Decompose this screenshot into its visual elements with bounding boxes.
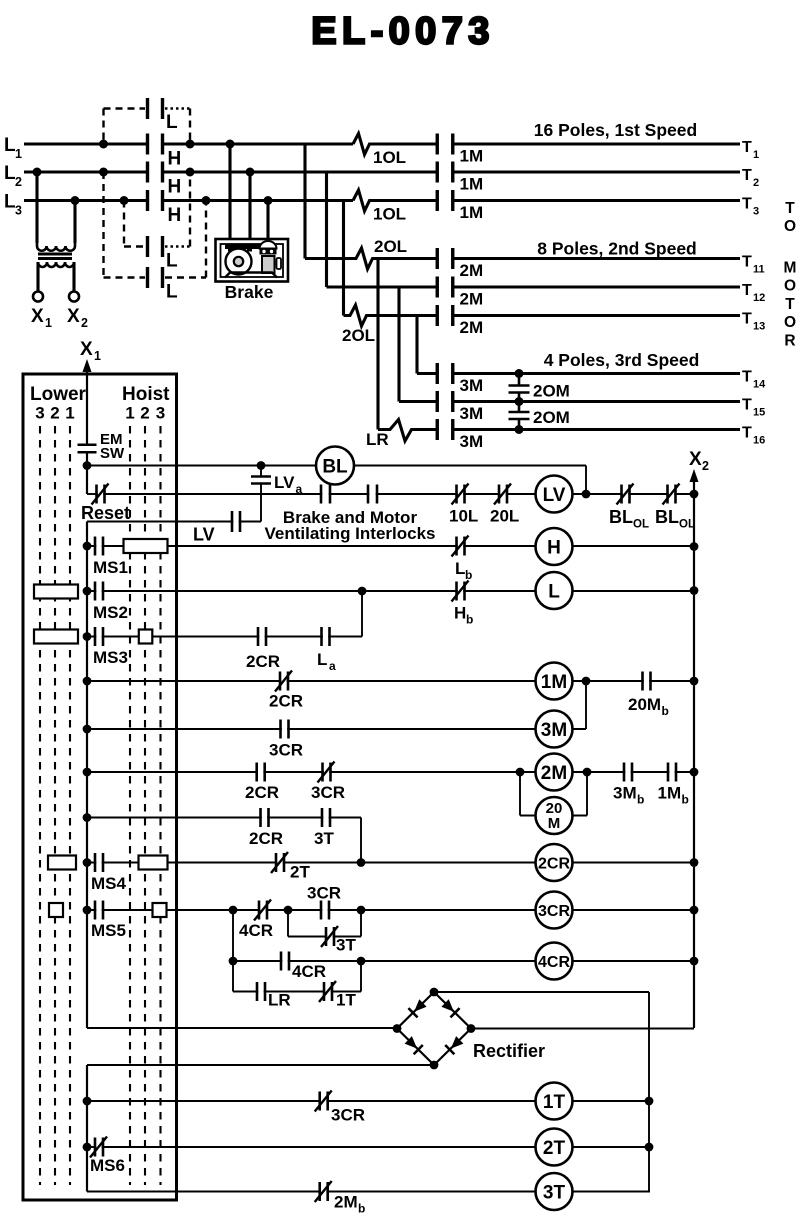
label T14 (742, 369, 766, 391)
label 2M row y=287 (460, 290, 484, 309)
wire 2OM upper (518, 374, 521, 402)
label 3Mb (613, 784, 644, 807)
svg-text:MS2: MS2 (93, 603, 128, 622)
svg-text:2M: 2M (460, 318, 484, 337)
svg-text:X: X (67, 306, 80, 327)
svg-text:LR: LR (268, 991, 291, 1010)
svg-text:2: 2 (15, 175, 22, 189)
svg-text:2CR: 2CR (245, 783, 279, 802)
label LR (268, 991, 291, 1010)
junction dot 2M b (583, 768, 592, 777)
contact L mid (148, 236, 163, 257)
svg-text:T: T (742, 254, 752, 271)
wire 3T branch (288, 910, 361, 937)
svg-text:O: O (784, 218, 796, 235)
wire row T15 (399, 400, 740, 403)
svg-text:20L: 20L (490, 507, 519, 526)
contact 2CR MS3 (258, 627, 266, 646)
contact MS1 (95, 537, 103, 556)
contact 4CR coil rung (281, 952, 289, 971)
junction dot 3M left (83, 725, 92, 734)
label 2CR 2M (245, 783, 279, 802)
label 2CR 1M (269, 692, 303, 711)
junction dot rail 2CR (690, 858, 699, 867)
contact Lb (452, 536, 469, 557)
capacitor 2OM upper (509, 386, 530, 393)
title EL-0073 (311, 11, 495, 53)
coil 2T (536, 1129, 573, 1166)
label T16 (742, 425, 765, 447)
svg-text:2M: 2M (460, 290, 484, 309)
label 1OL row1 (373, 148, 406, 167)
svg-text:3M: 3M (460, 432, 484, 451)
svg-text:LV: LV (274, 473, 295, 492)
wire X2 rail (693, 480, 695, 1028)
contact 2CR 1M (275, 671, 292, 692)
label TO MOTOR (784, 200, 797, 350)
svg-text:LV: LV (193, 525, 215, 545)
label LR row9 (366, 430, 389, 449)
label BLOL a (609, 507, 649, 531)
junction dot MS1 (83, 542, 92, 551)
svg-text:1: 1 (15, 147, 22, 161)
coil LV (536, 476, 573, 513)
wire X1 feeder to Reset (87, 453, 97, 495)
svg-text:L: L (166, 251, 178, 272)
label L bottom (166, 282, 178, 303)
label 10L (449, 507, 478, 526)
label X1 terminal (31, 306, 52, 330)
svg-text:3CR: 3CR (269, 741, 303, 760)
contact MS2 (95, 582, 103, 601)
terminal X2sec (69, 292, 79, 302)
svg-text:1T: 1T (336, 991, 356, 1010)
svg-text:T: T (742, 369, 752, 386)
coil 4CR (536, 943, 573, 980)
contact BLOL a (617, 484, 634, 505)
label 2CR MS3 (246, 652, 280, 671)
svg-text:b: b (662, 704, 669, 718)
junction dot rail 2M (690, 768, 699, 777)
junction dot 1M left (83, 677, 92, 686)
svg-text:O: O (784, 278, 796, 295)
contact H L3 (148, 190, 163, 211)
svg-text:2M: 2M (541, 763, 567, 784)
junction dot 2T right (645, 1143, 654, 1152)
coil 2M (536, 754, 573, 791)
contact H L1 (148, 134, 163, 155)
contact EM SW (78, 445, 97, 453)
svg-text:OL: OL (633, 519, 649, 531)
svg-text:1M: 1M (460, 203, 484, 222)
transformer T1 primary (37, 243, 75, 251)
junction dot 2T left (83, 1143, 92, 1152)
label Rectifier (473, 1041, 545, 1061)
svg-text:M: M (784, 260, 797, 277)
svg-text:T: T (742, 167, 752, 184)
wire L2 to 2nd speed (325, 172, 328, 287)
label 3CR MS5 (307, 884, 341, 903)
label 2OM upper (533, 382, 570, 401)
wire rung LV (97, 493, 694, 495)
svg-text:1M: 1M (460, 175, 484, 194)
svg-text:T: T (742, 425, 752, 442)
label T15 (742, 397, 765, 419)
contact 2Mb 3T (315, 1181, 332, 1202)
svg-text:H: H (168, 149, 182, 170)
capacitor 2OM lower (509, 412, 530, 419)
label 4CR MS5 (239, 921, 273, 940)
svg-text:H: H (168, 177, 182, 198)
junction dot MS2 (83, 587, 92, 596)
wire rung MS5-3CR (87, 909, 694, 911)
junction dot MS4 mid (357, 858, 366, 867)
svg-text:Rectifier: Rectifier (473, 1041, 545, 1061)
label 1OL row3 (373, 205, 406, 224)
contact 10L (452, 484, 469, 505)
junction dot rail L (690, 586, 699, 595)
junction dot rail 1M (690, 677, 699, 686)
svg-text:2T: 2T (543, 1138, 566, 1159)
contact 20Mb (643, 672, 651, 691)
wire row T14 (417, 372, 740, 375)
contact BLOL b (663, 484, 680, 505)
svg-text:T: T (742, 196, 752, 213)
svg-text:2OM: 2OM (533, 408, 570, 427)
svg-text:Brake: Brake (225, 282, 274, 302)
wire rung 3M (87, 681, 586, 729)
svg-text:1: 1 (94, 349, 101, 363)
label MS4 (91, 874, 127, 893)
wire rung LVpickup (87, 522, 261, 547)
svg-text:3CR: 3CR (311, 783, 345, 802)
svg-text:MS5: MS5 (91, 921, 126, 940)
svg-text:2M: 2M (460, 261, 484, 280)
label T3 (742, 196, 759, 218)
svg-text:1OL: 1OL (373, 148, 406, 167)
svg-text:16 Poles, 1st Speed: 16 Poles, 1st Speed (534, 120, 697, 140)
svg-text:1OL: 1OL (373, 205, 406, 224)
junction dot MS5 (83, 906, 92, 915)
svg-text:2OL: 2OL (342, 326, 375, 345)
svg-text:L: L (166, 282, 178, 303)
contact MS5 (95, 901, 103, 920)
label T13 (742, 311, 765, 333)
svg-text:Ventilating Interlocks: Ventilating Interlocks (265, 524, 436, 543)
contact interlock a (321, 485, 330, 504)
diode top-right (441, 999, 459, 1017)
wire LR-1T branch (233, 961, 361, 992)
label 2OL row6 (342, 326, 375, 345)
svg-text:T: T (742, 311, 752, 328)
svg-text:1T: 1T (543, 1092, 566, 1113)
label 16 Poles 1st Speed (534, 120, 697, 140)
coil 3CR (536, 892, 573, 929)
master switch box (23, 374, 177, 1200)
label T1 (742, 139, 759, 161)
coil 20M (536, 797, 573, 834)
label 2M row y=258.5 (460, 261, 484, 280)
cam rect MS4 hoist (139, 856, 168, 870)
label Lower (30, 384, 87, 405)
wire rung MS3 (87, 636, 362, 638)
svg-text:1: 1 (753, 149, 759, 161)
label MS5 (91, 921, 126, 940)
svg-text:2: 2 (702, 459, 709, 473)
junction dot MS2 branch (358, 587, 367, 596)
wire row T13 (344, 305, 741, 326)
wire hoist cam line 3 (159, 426, 161, 1185)
contact La (322, 627, 330, 646)
svg-text:2OL: 2OL (374, 237, 407, 256)
wire rung 1T (87, 1100, 650, 1102)
wire dashed bottom-left linkage (104, 172, 146, 278)
label LV contact (193, 525, 215, 545)
junction dot rail H (690, 542, 699, 551)
junction dot rail LV (690, 490, 699, 499)
svg-text:8 Poles, 2nd Speed: 8 Poles, 2nd Speed (537, 239, 697, 259)
label L3 (4, 192, 22, 218)
wire dashed mid-left linkage (124, 201, 145, 247)
svg-text:2: 2 (81, 316, 88, 330)
diode top-left (408, 999, 426, 1017)
label 2Mb 3T (334, 1193, 365, 1216)
svg-text:b: b (682, 793, 689, 807)
contact 2CR 2M (257, 763, 265, 782)
label MS2 (93, 603, 128, 622)
wire rung BL (87, 466, 586, 494)
svg-text:BL: BL (609, 507, 633, 527)
wire L1 to 2nd speed (303, 144, 306, 259)
coil 3M (536, 711, 573, 748)
label T2 (742, 167, 759, 189)
svg-text:OL: OL (679, 519, 695, 531)
svg-text:X: X (31, 306, 44, 327)
svg-text:T: T (742, 282, 752, 299)
wire rung 3T (87, 1191, 650, 1193)
label MS3 (93, 648, 128, 667)
svg-text:3T: 3T (336, 936, 356, 955)
wire rectifier right out (471, 1028, 694, 1030)
label 3T b1 (314, 829, 334, 848)
label 3CR 3M (269, 741, 303, 760)
coil 3T (536, 1173, 573, 1210)
node X1 arrow (83, 359, 92, 372)
label X2 terminal (67, 306, 88, 330)
cam rect MS4 left (48, 856, 76, 870)
svg-text:4CR: 4CR (292, 962, 326, 981)
contact 4CR MS5 (254, 900, 271, 921)
contact 2CR b1 (261, 808, 269, 827)
svg-text:10L: 10L (449, 507, 478, 526)
svg-text:15: 15 (753, 407, 765, 419)
svg-text:2OM: 2OM (533, 382, 570, 401)
label 3M row y=429.5 (460, 432, 484, 451)
svg-text:b: b (637, 793, 644, 807)
junction dots on L3 (71, 196, 273, 205)
svg-text:X: X (689, 449, 702, 470)
label 3CR 1T (331, 1106, 365, 1125)
wire brake feeds (230, 144, 268, 239)
junction dot 1M right (582, 677, 591, 686)
svg-text:3M: 3M (541, 720, 567, 741)
label 2OM lower (533, 408, 570, 427)
label H L1 (168, 149, 182, 170)
svg-text:2T: 2T (290, 863, 310, 882)
wire rectifier bottom out (87, 1065, 434, 1192)
svg-text:H: H (547, 537, 561, 558)
brake assembly (216, 239, 289, 282)
junction dot 1T right (645, 1097, 654, 1106)
contact 2M row y=258.5 (437, 248, 453, 269)
svg-text:2CR: 2CR (269, 692, 303, 711)
label 2M row y=315.5 (460, 318, 484, 337)
wire row T12 (327, 285, 741, 288)
wire lower cam line 2 (54, 426, 56, 1185)
label LVa (274, 473, 303, 496)
svg-text:3: 3 (753, 206, 759, 218)
cam square MS5 hoist (153, 903, 167, 917)
contact H L2 (148, 162, 163, 183)
wire transformer primary leads (37, 172, 75, 243)
label BLOL b (655, 507, 695, 531)
svg-text:16: 16 (753, 435, 765, 447)
wire rung MS4-2CR (87, 862, 694, 864)
wire 233 vertical (232, 910, 234, 992)
svg-text:O: O (784, 314, 796, 331)
svg-text:a: a (329, 659, 336, 673)
wire rung 2T (87, 1146, 650, 1148)
svg-text:MS4: MS4 (91, 874, 127, 893)
svg-text:H: H (168, 205, 182, 226)
svg-text:14: 14 (753, 379, 766, 391)
wire rectifier top out (434, 992, 649, 1192)
svg-text:1: 1 (45, 316, 52, 330)
svg-text:1: 1 (65, 404, 74, 423)
svg-text:Reset: Reset (81, 503, 130, 523)
cam square MS5 left (49, 903, 63, 917)
contact LR (257, 982, 265, 1001)
svg-text:LV: LV (543, 485, 566, 506)
contact Reset (92, 484, 109, 505)
label 1M row y=144 (460, 147, 484, 166)
svg-text:3CR: 3CR (538, 903, 570, 920)
label X2 node (689, 449, 709, 473)
svg-text:2CR: 2CR (538, 855, 570, 872)
svg-text:3M: 3M (460, 404, 484, 423)
coil H (536, 528, 573, 565)
wire hoist cam line 2 (144, 426, 146, 1185)
svg-text:MS6: MS6 (90, 1156, 125, 1175)
svg-text:EL-0073: EL-0073 (311, 11, 495, 53)
wire dotted mid-right linkage (165, 172, 190, 247)
label Hoist 123 (125, 404, 165, 423)
label 3CR 2M (311, 783, 345, 802)
wire L3 (24, 190, 740, 211)
contact 1Mb (668, 763, 676, 782)
svg-text:BL: BL (655, 507, 679, 527)
svg-text:4CR: 4CR (538, 954, 570, 971)
junction dot 4CR mid (357, 957, 366, 966)
svg-text:3M: 3M (613, 784, 637, 803)
wire lower cam line 3 (69, 426, 71, 1185)
svg-text:1: 1 (125, 404, 134, 423)
diode bottom-right (445, 1036, 463, 1054)
junction dot 2M a (516, 768, 525, 777)
label Lb (455, 559, 472, 582)
svg-text:X: X (80, 339, 93, 360)
contact 3M row y=401.5 (437, 391, 453, 412)
svg-text:2: 2 (140, 404, 149, 423)
wire 20M branch (520, 772, 587, 816)
contact L bottom (148, 267, 163, 288)
junction dots on L1 (99, 140, 235, 149)
svg-text:b: b (465, 568, 472, 582)
svg-text:3CR: 3CR (331, 1106, 365, 1125)
contact 3CR MS5 (321, 901, 329, 920)
contact 1M row y=200.5 (437, 190, 453, 211)
contact 1T branch (319, 981, 336, 1002)
svg-text:2: 2 (50, 404, 59, 423)
svg-text:3T: 3T (543, 1182, 566, 1203)
junction dot 2M left (83, 768, 92, 777)
wire 2nd to 3rd speed c (415, 316, 418, 374)
svg-text:1M: 1M (460, 147, 484, 166)
junction dot MS3 (83, 632, 92, 641)
svg-text:3CR: 3CR (307, 884, 341, 903)
junction dot rail 3CR (690, 906, 699, 915)
contact 2M row y=315.5 (437, 305, 453, 326)
junction dot MS5 b (284, 906, 293, 915)
junction dots on L2 (33, 168, 255, 177)
junction dot after LV (582, 490, 591, 499)
svg-text:T: T (785, 200, 795, 217)
capacitor LVa (251, 477, 271, 484)
label Brake (225, 282, 274, 302)
label Hoist (122, 384, 170, 405)
wire rung MS1-H (87, 545, 694, 547)
label 3M row y=401.5 (460, 404, 484, 423)
label Reset (81, 503, 130, 523)
contact 3Mb (624, 763, 632, 782)
wire transformer secondary leads (38, 262, 74, 292)
wire row T11 (305, 248, 740, 269)
svg-text:Hoist: Hoist (122, 384, 170, 405)
cam rect MS2 left (34, 585, 78, 599)
contact interlock b (368, 485, 377, 504)
svg-text:R: R (784, 333, 795, 350)
wire lower cam line 1 (39, 426, 41, 1185)
svg-text:b: b (358, 1202, 365, 1216)
contact 2M row y=287 (437, 277, 453, 298)
svg-text:L: L (548, 581, 560, 602)
svg-text:3: 3 (35, 404, 44, 423)
terminal X1 (33, 292, 43, 302)
svg-text:M: M (548, 815, 561, 832)
contact 3CR 1T (315, 1091, 332, 1112)
svg-text:BL: BL (322, 456, 348, 477)
svg-text:L: L (166, 112, 178, 133)
wire 2OM lower (518, 402, 521, 430)
svg-text:MS1: MS1 (93, 558, 128, 577)
contact 3CR 2M (318, 762, 335, 783)
label 8 Poles 2nd Speed (537, 239, 697, 259)
contact L top (148, 98, 163, 119)
transformer core (38, 254, 72, 259)
svg-text:Lower: Lower (30, 384, 87, 405)
contact MS6 (90, 1137, 107, 1158)
wire L3 to 2nd speed (342, 201, 345, 316)
